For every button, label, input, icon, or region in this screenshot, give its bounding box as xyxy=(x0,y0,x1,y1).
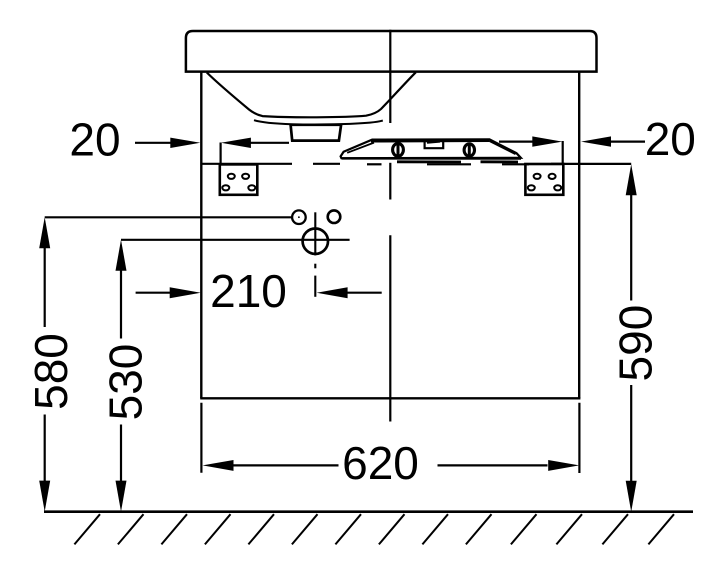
dimension 530 xyxy=(116,240,350,512)
svg-text:620: 620 xyxy=(342,437,419,489)
tap hole xyxy=(303,229,328,254)
drain fitting box xyxy=(291,125,342,141)
floor hatching xyxy=(74,514,674,544)
extension tick right20 xyxy=(562,141,564,164)
mounting rail (perspective) xyxy=(341,139,521,162)
dimension 210 xyxy=(136,287,382,298)
washbasin top (rounded rectangle) xyxy=(186,31,597,72)
dimension 620 xyxy=(203,460,580,471)
620 extension line right xyxy=(578,403,580,473)
svg-text:210: 210 xyxy=(210,265,287,317)
cabinet bottom xyxy=(200,397,580,399)
extension tick left20 xyxy=(220,143,222,164)
left bracket xyxy=(220,164,257,194)
tap hole axis line xyxy=(314,212,316,296)
cabinet top hidden edge (dash line) xyxy=(202,163,632,166)
svg-text:530: 530 xyxy=(100,344,152,421)
620 extension line left xyxy=(200,403,202,473)
cabinet left side xyxy=(200,72,202,399)
basin rim lower line xyxy=(254,120,383,124)
center line xyxy=(389,30,391,422)
floor line xyxy=(44,510,693,513)
rail screw left xyxy=(393,143,404,156)
dimension 590 xyxy=(626,164,637,512)
small hole right xyxy=(328,210,341,223)
rail screw right xyxy=(464,144,474,156)
svg-text:580: 580 xyxy=(25,333,77,410)
basin bowl profile xyxy=(207,72,416,117)
small hole with center dot xyxy=(292,210,306,224)
dimension 580 xyxy=(39,217,291,511)
rail clip xyxy=(425,141,444,148)
cabinet right side xyxy=(578,72,580,399)
svg-text:20: 20 xyxy=(645,113,696,165)
svg-text:590: 590 xyxy=(610,305,662,382)
right bracket xyxy=(525,164,563,195)
dimension 20 right xyxy=(499,136,645,163)
dimension 20 left xyxy=(135,138,289,164)
svg-text:20: 20 xyxy=(69,114,120,166)
